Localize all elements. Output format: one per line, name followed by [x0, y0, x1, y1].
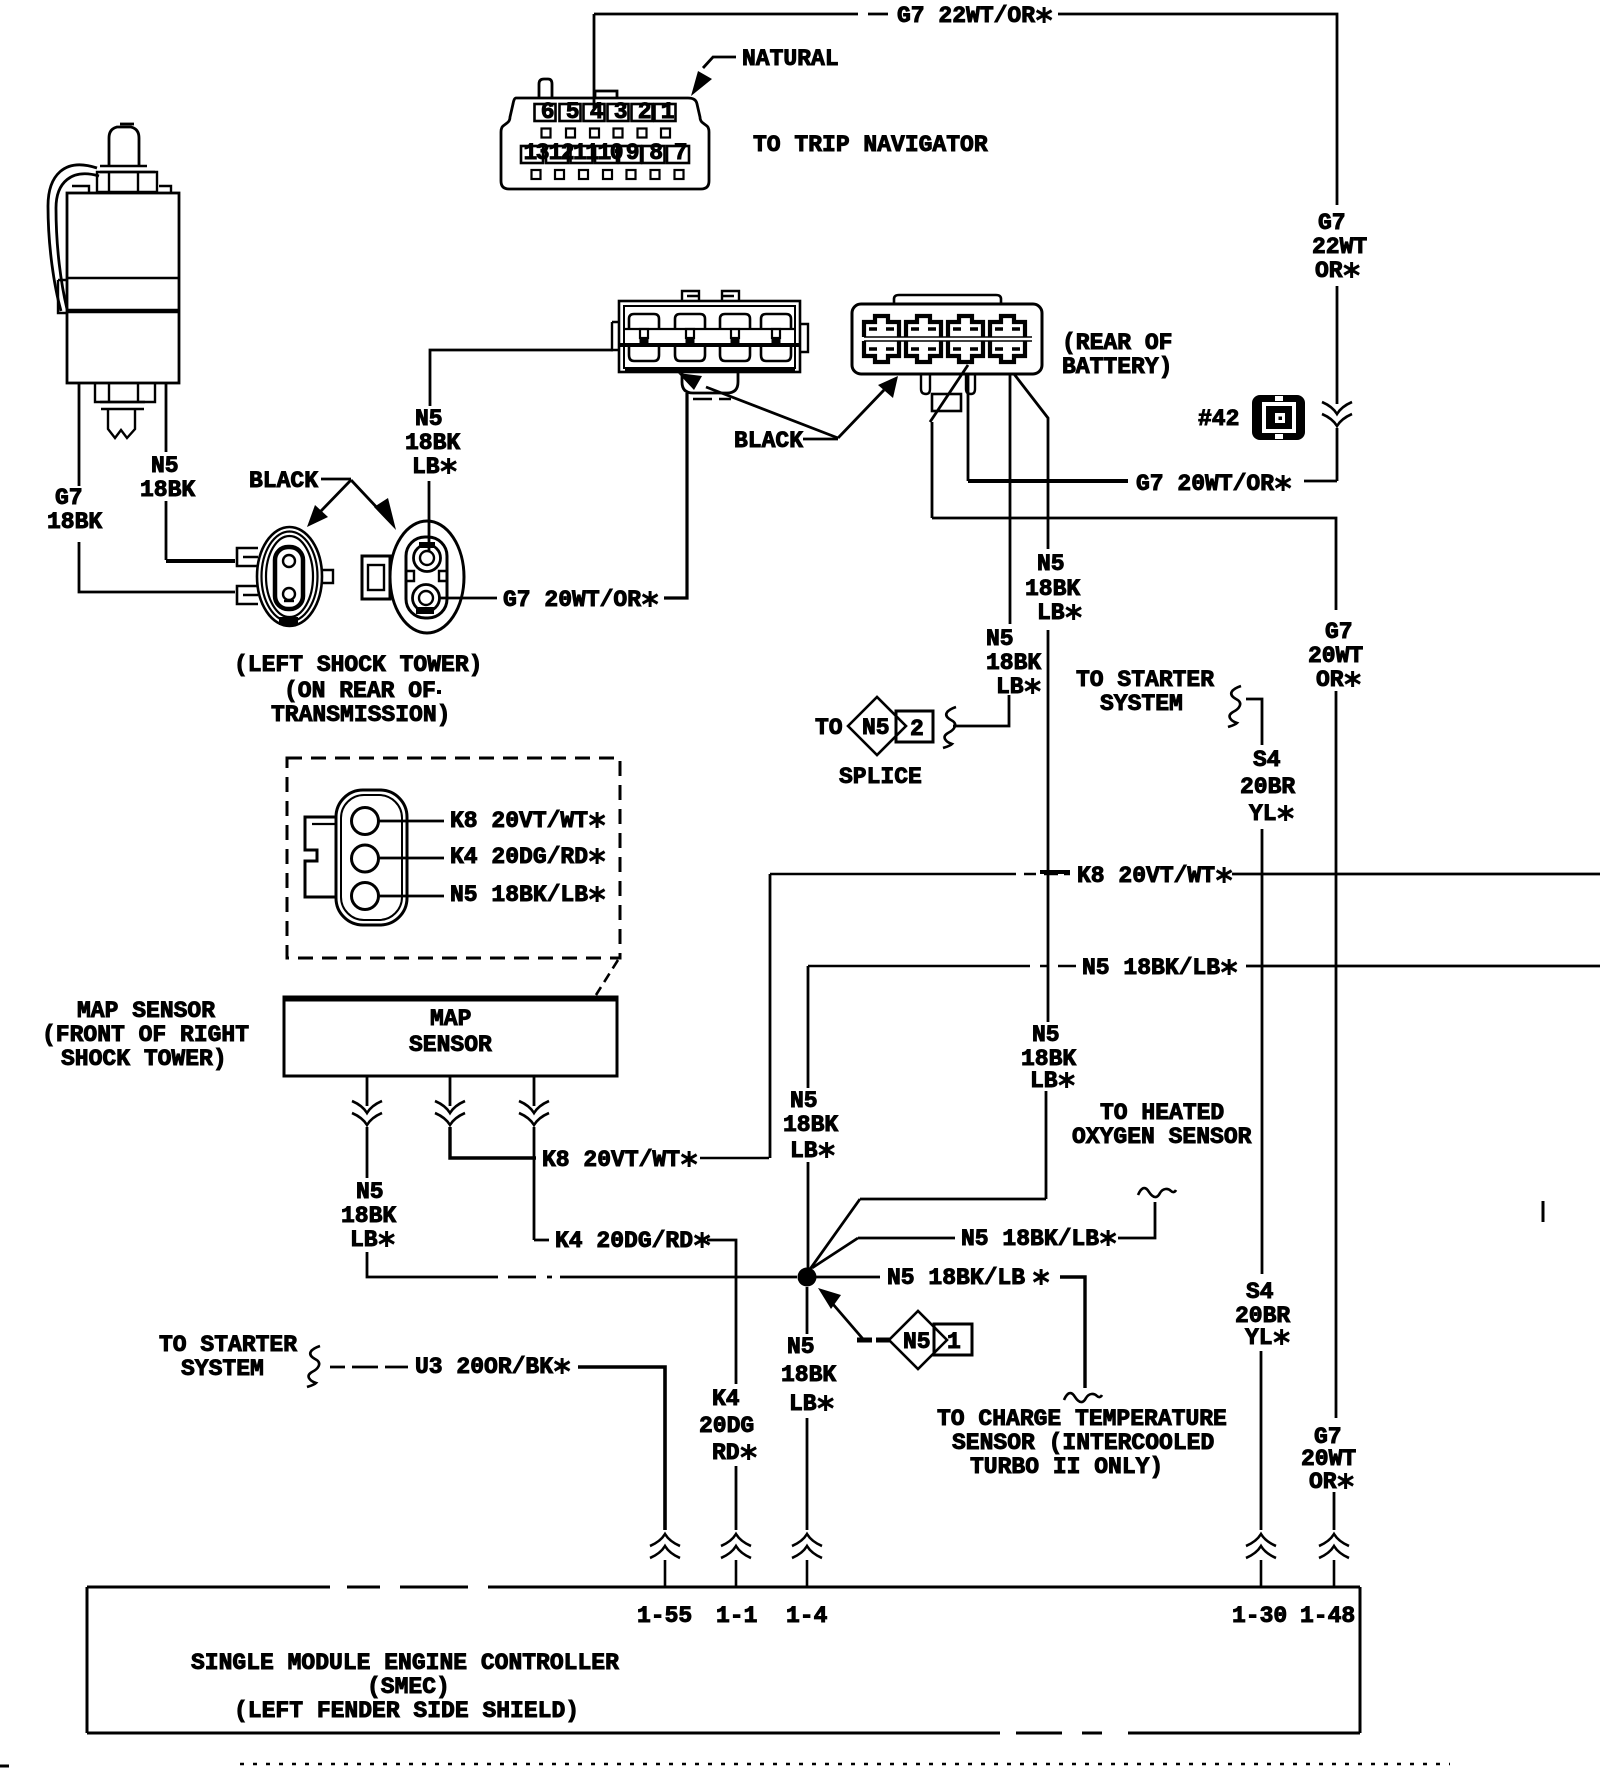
connector bracket left: [305, 817, 336, 897]
svg-text:1-1: 1-1: [716, 1603, 757, 1629]
wire S4 20BR YL*: [1246, 699, 1262, 745]
svg-text:(REAR OF: (REAR OF: [1062, 330, 1172, 356]
svg-text:(LEFT SHOCK TOWER): (LEFT SHOCK TOWER): [234, 652, 482, 678]
svg-text:K8 20VT/WT: K8 20VT/WT: [1077, 863, 1215, 889]
MAP SENSOR box: [284, 997, 617, 1076]
pin slot small square bottom: [603, 170, 612, 179]
svg-text:NATURAL: NATURAL: [742, 46, 839, 72]
connector pin (top row): [675, 314, 705, 329]
connector pin (bottom row): [675, 345, 705, 361]
svg-text:5: 5: [566, 99, 580, 125]
connector pin (bottom row): [629, 345, 659, 361]
wire N5 18BK/LB* long horizontal: [808, 965, 1076, 968]
distance sensor lower hex and thread: [95, 383, 155, 402]
svg-text:N5: N5: [415, 406, 443, 432]
svg-text:N5: N5: [356, 1179, 384, 1205]
distance sensor body: [109, 127, 139, 166]
svg-text:G7 20WT/OR: G7 20WT/OR: [503, 587, 641, 613]
connector left tabs: [237, 548, 258, 566]
maze pin pattern cell: [948, 316, 983, 337]
connector tab top-left: [539, 79, 552, 97]
pin slot small square bottom: [579, 170, 588, 179]
svg-text:LB: LB: [412, 454, 440, 480]
svg-text:G7 20WT/OR: G7 20WT/OR: [1136, 471, 1274, 497]
pin slot small square: [590, 129, 599, 138]
connector pin (bottom row): [761, 345, 791, 361]
pin 7 box bottom row: [667, 146, 689, 163]
wire N5 from MAP sensor: [366, 1076, 369, 1106]
pin slot small square: [638, 129, 647, 138]
maze pin pattern cell: [906, 316, 941, 337]
svg-text:8: 8: [649, 140, 663, 166]
svg-text:K4: K4: [712, 1386, 740, 1412]
svg-text:TO STARTER: TO STARTER: [1076, 667, 1214, 693]
wire: N5 pin down from battery connector: [1009, 375, 1012, 624]
svg-text:7: 7: [674, 140, 688, 166]
svg-text:BLACK: BLACK: [734, 428, 803, 454]
svg-text:OR: OR: [1309, 1469, 1337, 1495]
svg-text:RD: RD: [712, 1440, 740, 1466]
wire K8 from MAP sensor: [449, 1076, 452, 1106]
break symbol (in-line connector): [1322, 402, 1352, 426]
connector: 8-pin black (to shock tower): [619, 301, 800, 372]
svg-text:S4: S4: [1253, 747, 1281, 773]
svg-text:(LEFT FENDER SIDE SHIELD): (LEFT FENDER SIDE SHIELD): [234, 1698, 579, 1724]
svg-text:TO CHARGE TEMPERATURE: TO CHARGE TEMPERATURE: [937, 1406, 1227, 1432]
pin 9 box bottom row: [619, 146, 641, 163]
svg-text:K4 20DG/RD: K4 20DG/RD: [555, 1228, 693, 1254]
svg-text:20BR: 20BR: [1240, 774, 1295, 800]
svg-text:BATTERY): BATTERY): [1062, 354, 1172, 380]
pin slot small square bottom: [532, 170, 541, 179]
svg-text:1-4: 1-4: [786, 1603, 828, 1629]
svg-text:18BK: 18BK: [986, 650, 1041, 676]
svg-text:N5: N5: [1037, 551, 1065, 577]
svg-text:22WT: 22WT: [1312, 234, 1367, 260]
svg-text:G7: G7: [1318, 210, 1346, 236]
svg-text:LB: LB: [789, 1391, 817, 1417]
svg-text:SENSOR: SENSOR: [409, 1032, 492, 1058]
dashed box (MAP sensor connector detail): [287, 758, 620, 958]
svg-text:2: 2: [910, 716, 924, 742]
connector bottom mark: [279, 617, 298, 625]
wire: G7 22WT/OR to right side: [1058, 14, 1337, 205]
svg-text:(ON REAR OF: (ON REAR OF: [284, 678, 436, 704]
connector right tab: [321, 570, 333, 583]
pin slot small square: [661, 129, 670, 138]
svg-text:N5: N5: [903, 1329, 931, 1355]
pin slot small square bottom: [675, 170, 684, 179]
distance sensor band: [67, 277, 179, 279]
pin 10 box bottom row: [595, 146, 617, 163]
wire diagonal to heated oxygen sensor label: [812, 1238, 955, 1268]
svg-text:(FRONT OF RIGHT: (FRONT OF RIGHT: [42, 1022, 249, 1048]
pin 5 box top row: [560, 104, 581, 121]
svg-text:K4 20DG/RD: K4 20DG/RD: [450, 844, 588, 870]
svg-text:BLACK: BLACK: [249, 468, 318, 494]
wire: G7 22WT/OR horizontal top: [594, 13, 888, 16]
svg-text:G7 22WT/OR: G7 22WT/OR: [897, 3, 1035, 29]
junction node N5 splice point: [798, 1268, 817, 1287]
svg-text:MAP: MAP: [430, 1006, 471, 1032]
svg-text:S4: S4: [1246, 1279, 1274, 1305]
svg-text:N5 18BK/LB: N5 18BK/LB: [887, 1265, 1025, 1291]
svg-text:N5: N5: [862, 715, 890, 741]
pin 13 box bottom row: [521, 146, 543, 163]
connector: distance sensor mate (left shock tower): [257, 527, 322, 626]
pin 11 box bottom row: [571, 146, 593, 163]
svg-text:9: 9: [626, 140, 640, 166]
svg-text:18BK: 18BK: [781, 1362, 836, 1388]
svg-text:N5: N5: [1032, 1022, 1060, 1048]
svg-text:18BK: 18BK: [140, 477, 195, 503]
connector: MAP sensor 3-pin: [336, 790, 407, 925]
scan noise: right edge tick: [1542, 1201, 1545, 1222]
break symbol above SMEC: [721, 1534, 751, 1558]
distance sensor cable loop: [48, 165, 97, 311]
connector: rear of battery (maze pattern): [852, 304, 1042, 374]
pin slot small square: [542, 129, 551, 138]
wire G7 18BK from distance sensor: [78, 383, 81, 486]
wire: N5 18BK LB* twisted branch: [1014, 374, 1048, 549]
connector pegs below: [921, 374, 930, 394]
pin slot small square bottom: [627, 170, 636, 179]
svg-text:LB: LB: [1030, 1068, 1058, 1094]
splice N5 1 with arrow to junction: [818, 1288, 841, 1309]
svg-text:20DG: 20DG: [699, 1413, 754, 1439]
svg-text:SYSTEM: SYSTEM: [1100, 691, 1183, 717]
svg-text:6: 6: [541, 99, 555, 125]
SMEC controller box: [87, 1586, 1360, 1589]
break symbol above SMEC: [1246, 1534, 1276, 1558]
svg-text:TRANSMISSION): TRANSMISSION): [271, 702, 450, 728]
svg-text:G7: G7: [1325, 619, 1353, 645]
svg-text:N5: N5: [790, 1088, 818, 1114]
pin 3 box top row: [608, 104, 629, 121]
pin 1 box top row: [655, 104, 676, 121]
connector foot: [682, 372, 738, 393]
svg-text:N5 18BK/LB: N5 18BK/LB: [1082, 955, 1220, 981]
svg-text:LB: LB: [1037, 600, 1065, 626]
break symbol above SMEC: [1319, 1534, 1349, 1558]
svg-text:MAP SENSOR: MAP SENSOR: [77, 998, 215, 1024]
pin 12 box bottom row: [546, 146, 568, 163]
svg-text:1-30: 1-30: [1232, 1603, 1287, 1629]
pin wires to labels: [379, 821, 444, 896]
pin 6 box top row: [535, 104, 556, 121]
svg-text:1-48: 1-48: [1300, 1603, 1355, 1629]
break symbol above SMEC: [650, 1534, 680, 1558]
svg-text:1: 1: [947, 1329, 961, 1355]
svg-text:SENSOR (INTERCOOLED: SENSOR (INTERCOOLED: [952, 1430, 1214, 1456]
svg-text:LB: LB: [790, 1138, 818, 1164]
connector: left shock tower 2-pin: [390, 521, 464, 633]
wire: G7 right vertical with break: [1336, 286, 1339, 404]
wire: G7 20WT/OR from shock tower connector: [440, 597, 497, 600]
svg-text:TO: TO: [815, 715, 843, 741]
svg-text:(SMEC): (SMEC): [367, 1674, 450, 1700]
connector wire-entry bump: [595, 91, 617, 97]
wire right to N5 18BK/LB* charge temp branch: [816, 1276, 880, 1279]
pin slot small square bottom: [555, 170, 564, 179]
svg-text:18BK: 18BK: [341, 1203, 396, 1229]
svg-text:N5: N5: [986, 626, 1014, 652]
maze pin pattern cell: [864, 316, 899, 337]
connector pin (top row): [761, 314, 791, 329]
svg-text:18BK: 18BK: [1025, 576, 1080, 602]
wire K8 20VT/WT* long horizontal: [770, 873, 1070, 876]
svg-text:3: 3: [614, 99, 628, 125]
pin slot small square: [614, 129, 623, 138]
svg-text:N5: N5: [151, 453, 179, 479]
pin 4 box top row: [584, 104, 605, 121]
svg-text:18BK: 18BK: [783, 1112, 838, 1138]
svg-text:SINGLE MODULE ENGINE CONTROLLE: SINGLE MODULE ENGINE CONTROLLER: [191, 1650, 619, 1676]
svg-text:OXYGEN SENSOR: OXYGEN SENSOR: [1072, 1124, 1252, 1150]
svg-text:SHOCK TOWER): SHOCK TOWER): [61, 1046, 227, 1072]
svg-text:4: 4: [590, 99, 604, 125]
wire N5 below junction to SMEC 1-4: [806, 1287, 809, 1334]
svg-text:LB: LB: [350, 1227, 378, 1253]
svg-text:18BK: 18BK: [405, 430, 460, 456]
wire U3 20OR/BK*: [330, 1366, 408, 1369]
svg-text:U3 20OR/BK: U3 20OR/BK: [415, 1354, 553, 1380]
svg-text:YL: YL: [1245, 1325, 1273, 1351]
maze pin pattern cell: [990, 316, 1025, 337]
wire: trip navigator pin 4 to G7 22WT/OR: [593, 14, 596, 108]
dashed leader to MAP box: [596, 960, 618, 995]
svg-text:N5 18BK/LB: N5 18BK/LB: [450, 882, 588, 908]
wire: N5 18BK LB* from shock tower connector up: [428, 481, 431, 551]
wire: second G7 to SMEC 1-48 (upper run): [932, 422, 1336, 610]
svg-text:YL: YL: [1249, 801, 1277, 827]
pin 2 box top row: [632, 104, 653, 121]
svg-text:LB: LB: [996, 674, 1024, 700]
connector pin (top row): [720, 314, 750, 329]
svg-text:TURBO II ONLY): TURBO II ONLY): [970, 1454, 1163, 1480]
svg-text:#42: #42: [1198, 406, 1239, 432]
wire: G7 20WT/OR from battery connector: [967, 375, 970, 481]
svg-text:2: 2: [638, 99, 652, 125]
svg-text:1: 1: [661, 99, 675, 125]
scan noise: bottom dotted line: [240, 1763, 1450, 1766]
connector: TO TRIP NAVIGATOR (natural 13-pin) body: [501, 98, 709, 189]
svg-text:20WT: 20WT: [1308, 643, 1363, 669]
pin slot small square bottom: [651, 170, 660, 179]
svg-text:SPLICE: SPLICE: [839, 764, 922, 790]
wire N5 18BK from distance sensor: [165, 383, 168, 452]
wire stub to splice N5-2: [953, 695, 1009, 726]
svg-text:TO HEATED: TO HEATED: [1100, 1100, 1224, 1126]
svg-text:OR: OR: [1315, 258, 1343, 284]
svg-text:SYSTEM: SYSTEM: [181, 1356, 264, 1382]
svg-text:K8 20VT/WT: K8 20VT/WT: [542, 1147, 680, 1173]
connector small box with twisted-lead diagonal: [932, 394, 961, 411]
svg-text:1-55: 1-55: [637, 1603, 692, 1629]
svg-text:OR: OR: [1316, 667, 1344, 693]
svg-text:N5: N5: [787, 1334, 815, 1360]
svg-text:18BK: 18BK: [47, 509, 102, 535]
svg-text:N5 18BK/LB: N5 18BK/LB: [961, 1226, 1099, 1252]
pin 8 box bottom row: [643, 146, 665, 163]
svg-text:TO TRIP NAVIGATOR: TO TRIP NAVIGATOR: [753, 132, 988, 158]
svg-text:K8 20VT/WT: K8 20VT/WT: [450, 808, 588, 834]
connector pin (top row): [629, 314, 659, 329]
connector left tab: [362, 556, 390, 599]
break symbol above SMEC: [792, 1534, 822, 1558]
svg-text:G7: G7: [55, 485, 83, 511]
wire K4 from MAP sensor: [533, 1076, 536, 1106]
connector pin (bottom row): [720, 345, 750, 361]
pin slot small square: [566, 129, 575, 138]
svg-text:TO STARTER: TO STARTER: [159, 1332, 297, 1358]
